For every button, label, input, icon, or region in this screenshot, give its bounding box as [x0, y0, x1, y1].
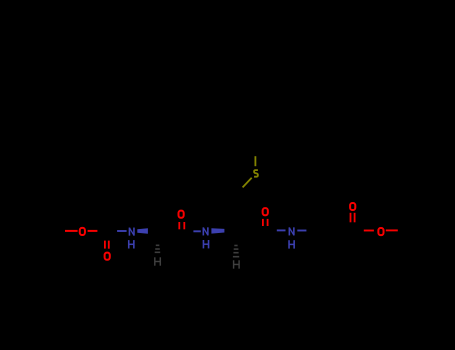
node H on N2	[203, 240, 208, 248]
node N3: amide 2 nitrogen label	[289, 227, 294, 235]
wire: double bond C4=O5 (red half, two vertical lines)	[351, 213, 355, 223]
wire: bond C4 to O6 (red half)	[364, 230, 374, 232]
node H on N3	[289, 240, 294, 248]
wire: bond N3 to CH2 (blue half)	[297, 230, 306, 232]
node O5: ester carbonyl oxygen label	[350, 203, 355, 210]
wire: bond S up to trityl C (olive half, vertical)	[254, 156, 256, 166]
node N2: amide 1 nitrogen label	[203, 227, 208, 235]
wire: bond C1 to N1 (blue half)	[117, 230, 127, 232]
node H: stereocenter 1 hydrogen label (gray)	[155, 257, 161, 265]
node H: stereocenter 2 hydrogen label (gray)	[234, 260, 240, 268]
node N1: carbamate nitrogen label	[129, 228, 134, 236]
hash wedge: C-alpha1 down to stereo H (gray dashes)	[155, 245, 161, 252]
wire: double bond C3=O4 (red half, two vertical lines)	[263, 219, 268, 226]
wire: bond CH2 to S (olive half, diagonal)	[243, 178, 252, 188]
wire: bond C2 to N2 (blue half)	[193, 230, 200, 232]
node O2: carbamate carbonyl oxygen label	[105, 253, 110, 260]
wedge: bold stereo bond N2 to C-alpha2 (blue half, wide at N side)	[211, 228, 224, 233]
wire: bond O1 to carbonyl C1 (red half)	[88, 230, 98, 232]
wire: bond tBu-C to O1 (red half)	[65, 230, 78, 232]
node H on N1	[129, 240, 134, 248]
wedge: bold stereo bond N1 to C-alpha1 (blue half)	[137, 228, 148, 233]
wire: bond C3 to N3 (blue half)	[277, 229, 286, 231]
node O3: amide 1 carbonyl oxygen label	[179, 211, 184, 218]
wire: bond O6 to tBu C (red half)	[386, 229, 398, 231]
node S: thioether sulfur label	[254, 170, 258, 177]
wire: double bond C1=O2 (red half, two vertical lines)	[105, 241, 109, 249]
node O1: carbamate ester oxygen label	[80, 228, 85, 235]
node O4: amide 2 carbonyl oxygen label	[263, 208, 268, 215]
wire: double bond C2=O3 (red half, two vertical lines)	[179, 222, 184, 229]
hash wedge: C-alpha2 down to stereo H (gray dashes)	[233, 246, 239, 257]
node O6: ester oxygen label	[378, 228, 383, 235]
